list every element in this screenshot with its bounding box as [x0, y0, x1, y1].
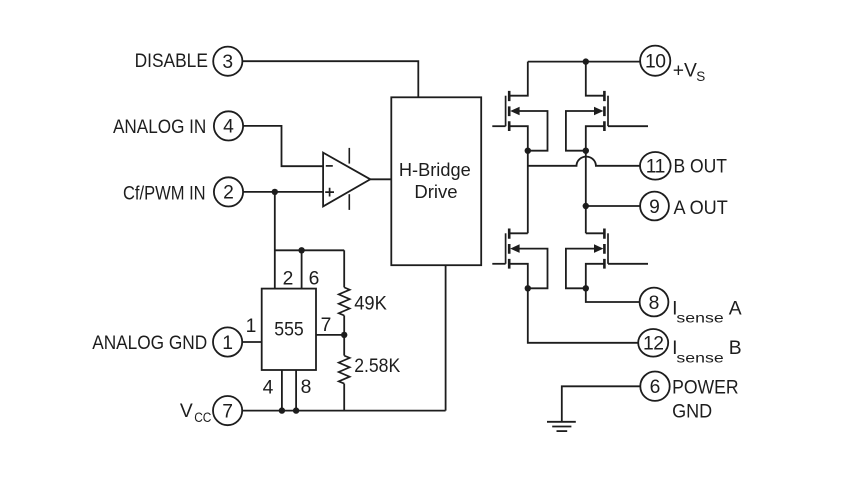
wire 555 pin 7 to resistor junction [316, 334, 344, 336]
block 555 timer U1 [262, 289, 316, 370]
svg-text:ANALOG IN: ANALOG IN [113, 117, 206, 138]
wire comparator output to H-Bridge Drive [370, 178, 391, 180]
pin 3 circle [213, 47, 242, 76]
svg-text:CC: CC [194, 410, 211, 425]
svg-text:POWER: POWER [672, 378, 739, 399]
svg-text:10: 10 [645, 52, 665, 73]
svg-text:+V: +V [673, 60, 697, 81]
wire ANALOG IN to comparator inverting input [243, 126, 323, 166]
svg-text:9: 9 [649, 197, 660, 218]
wire A OUT [586, 205, 640, 207]
svg-text:2: 2 [223, 183, 234, 204]
svg-text:DISABLE: DISABLE [135, 51, 208, 72]
junction pin 6 dot [298, 247, 304, 253]
resistor 49K [339, 287, 387, 315]
svg-text:3: 3 [222, 52, 233, 73]
resistor 2.58K [339, 356, 401, 384]
wire Isense B [528, 288, 638, 343]
wire 2.58K bottom to Vcc rail [343, 384, 345, 411]
svg-text:6: 6 [309, 269, 320, 290]
svg-text:Drive: Drive [414, 181, 457, 202]
pin 2 circle [214, 177, 243, 206]
svg-text:A OUT: A OUT [674, 198, 729, 219]
svg-text:sense: sense [676, 350, 724, 365]
pin 9 circle [640, 192, 669, 221]
wire H-Bridge Drive bottom to Vcc rail [445, 265, 447, 410]
wire right bridge leg [585, 151, 587, 234]
node Isense A label [672, 298, 742, 325]
ground [547, 422, 576, 431]
junction A OUT dot [583, 203, 589, 209]
pin 1 circle [213, 327, 242, 356]
wire to 555 pin 6 [301, 250, 303, 288]
wire tee to 49K resistor top [343, 250, 345, 287]
svg-text:sense: sense [676, 311, 724, 326]
svg-text:49K: 49K [354, 293, 387, 314]
junction +Vs rail dot [583, 58, 589, 64]
pin 6 circle [640, 372, 669, 401]
svg-text:H-Bridge: H-Bridge [399, 159, 471, 180]
svg-text:4: 4 [223, 117, 234, 138]
transistor Q3 bottom-left [492, 229, 547, 292]
wire 555 pin 4 to Vcc [281, 370, 283, 411]
transistor Q2 top-right [566, 62, 648, 154]
svg-text:S: S [696, 69, 705, 84]
svg-text:8: 8 [301, 377, 312, 398]
pin 7 circle [213, 396, 242, 425]
svg-text:4: 4 [263, 378, 274, 399]
svg-text:Cf/PWM IN: Cf/PWM IN [123, 184, 206, 205]
svg-text:7: 7 [222, 401, 233, 422]
wire 555 pin 8 to Vcc [295, 370, 297, 411]
pin 4 circle [214, 111, 243, 140]
svg-text:V: V [180, 401, 193, 422]
svg-text:2.58K: 2.58K [354, 356, 400, 377]
svg-text:6: 6 [650, 377, 661, 398]
wire DISABLE to H-Bridge Drive top [242, 61, 418, 97]
wire Vcc rail [242, 410, 445, 412]
pin 12 circle [638, 329, 668, 357]
junction pin 4 dot [279, 407, 285, 413]
transistor Q1 top-left [492, 62, 547, 154]
wire +Vs rail [528, 61, 640, 63]
block H-Bridge Drive [391, 97, 481, 265]
wire POWER GND to ground [562, 386, 641, 421]
svg-text:B OUT: B OUT [674, 156, 728, 177]
wire 555 pins 2,6 tee line [275, 249, 344, 251]
pin 11 circle [640, 152, 671, 180]
junction Cf node [272, 189, 278, 195]
svg-text:2: 2 [283, 269, 294, 290]
op-amp comparator [323, 148, 370, 210]
wire ANALOG GND to 555 pin 1 [242, 341, 262, 343]
junction pin 8 dot [293, 407, 299, 413]
junction resistor divider dot [341, 332, 347, 338]
node Vcc label [180, 401, 212, 425]
node POWER GND label [672, 378, 739, 423]
wire Isense A [586, 288, 640, 302]
svg-text:1: 1 [222, 333, 233, 354]
node Isense B label [672, 338, 741, 365]
svg-text:11: 11 [646, 157, 665, 178]
node +Vs label [673, 60, 706, 84]
svg-text:GND: GND [672, 402, 712, 423]
svg-text:ANALOG GND: ANALOG GND [92, 333, 207, 354]
wire Cf/PWM IN to comparator non-inverting input [243, 191, 323, 193]
wire left bridge leg [527, 151, 529, 234]
wire 49K to 2.58K [343, 316, 345, 356]
svg-text:8: 8 [649, 293, 660, 314]
pin 10 circle [640, 46, 670, 76]
svg-text:555: 555 [274, 320, 304, 341]
svg-text:1: 1 [246, 316, 257, 337]
transistor Q4 bottom-right [566, 229, 648, 292]
svg-text:7: 7 [321, 315, 332, 336]
svg-text:B: B [729, 338, 742, 359]
wire Cf node down to 555 pin 2 [274, 192, 276, 289]
svg-text:12: 12 [643, 334, 663, 355]
wire B OUT with hop over right leg [528, 157, 640, 166]
svg-text:A: A [729, 298, 742, 319]
pin 8 circle [640, 288, 669, 317]
